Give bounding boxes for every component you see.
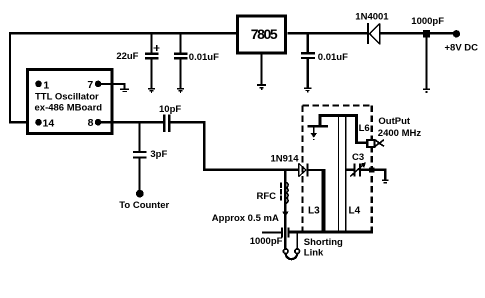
svg-text:L4: L4 xyxy=(349,205,361,216)
svg-text:L3: L3 xyxy=(308,205,320,216)
svg-text:10pF: 10pF xyxy=(159,104,181,115)
svg-text:ex-486 MBoard: ex-486 MBoard xyxy=(35,103,103,114)
svg-text:8: 8 xyxy=(88,117,94,129)
svg-text:1000pF: 1000pF xyxy=(411,16,444,27)
svg-text:0.01uF: 0.01uF xyxy=(189,52,219,63)
svg-text:Shorting: Shorting xyxy=(304,237,343,248)
svg-text:+8V DC: +8V DC xyxy=(445,43,479,54)
svg-text:Approx 0.5 mA: Approx 0.5 mA xyxy=(212,213,279,224)
svg-text:1000pF: 1000pF xyxy=(250,236,283,247)
svg-text:7: 7 xyxy=(87,79,93,91)
svg-text:22uF: 22uF xyxy=(116,51,138,62)
svg-text:OutPut: OutPut xyxy=(378,116,410,127)
svg-text:2400 MHz: 2400 MHz xyxy=(378,128,422,139)
svg-text:L6: L6 xyxy=(359,123,370,134)
svg-text:14: 14 xyxy=(43,118,55,130)
svg-text:0.01uF: 0.01uF xyxy=(318,52,348,63)
svg-text:1: 1 xyxy=(43,79,49,91)
svg-text:1N4001: 1N4001 xyxy=(355,11,389,22)
svg-text:Link: Link xyxy=(304,248,324,259)
svg-text:7805: 7805 xyxy=(251,26,278,42)
svg-text:RFC: RFC xyxy=(257,191,277,202)
svg-text:C3: C3 xyxy=(352,152,364,163)
svg-text:TTL Oscillator: TTL Oscillator xyxy=(35,92,99,103)
svg-text:To Counter: To Counter xyxy=(119,200,169,211)
svg-text:1N914: 1N914 xyxy=(271,153,300,164)
svg-text:3pF: 3pF xyxy=(150,149,167,160)
